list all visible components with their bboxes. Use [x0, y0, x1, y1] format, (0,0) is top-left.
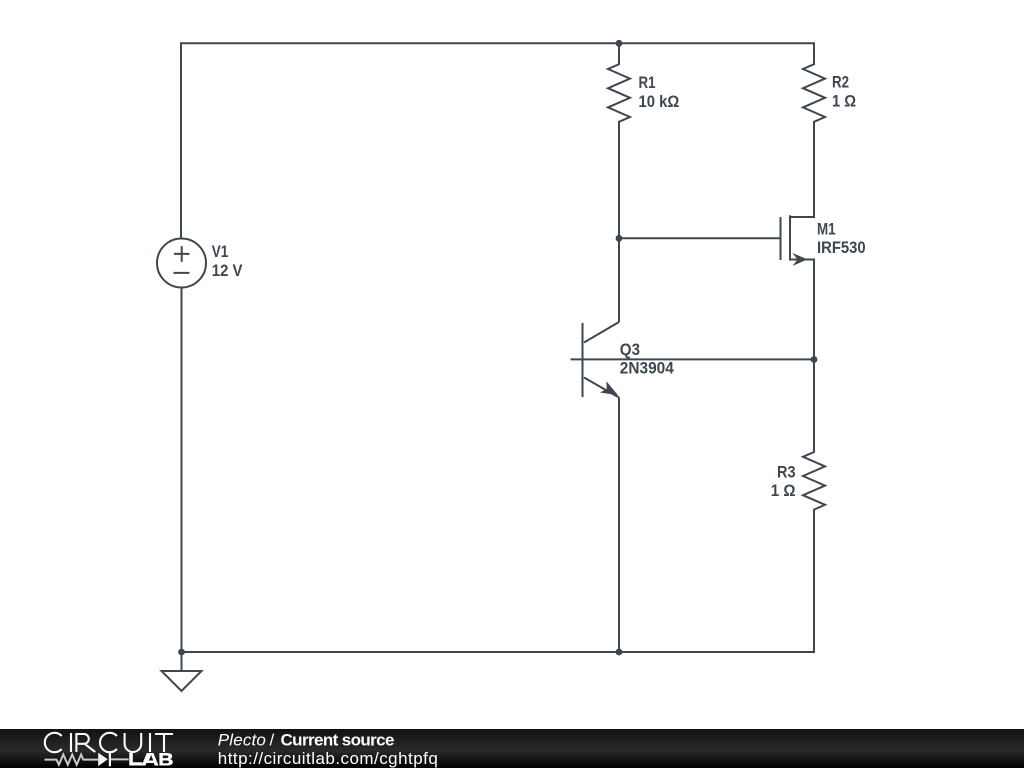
wire top rail	[180, 42, 815, 44]
resistor R3	[803, 360, 825, 653]
wire left rail upper (V1 to top rail)	[180, 43, 182, 238]
wire gate (R1 node to M1 gate)	[619, 237, 780, 239]
svg-text:Current source: Current source	[281, 731, 395, 750]
node bottom rail / Q3 emitter	[616, 649, 623, 656]
wire Q3 base rail	[571, 358, 815, 360]
transistor Q3	[583, 238, 620, 652]
resistor R1	[608, 43, 630, 238]
logo CIRCUIT wordmark	[45, 733, 173, 752]
node top rail / R1	[616, 40, 623, 47]
wire bottom rail	[181, 651, 816, 653]
footer bar	[0, 729, 1024, 768]
resistor R2	[803, 43, 825, 217]
voltage source V1	[157, 239, 206, 288]
logo LAB wordmark	[129, 753, 172, 766]
svg-text:http://circuitlab.com/cghtpfq: http://circuitlab.com/cghtpfq	[218, 749, 438, 768]
mosfet M1	[781, 215, 816, 266]
logo resistor-diode squiggle	[45, 753, 129, 767]
ground	[162, 652, 202, 691]
svg-text:/: /	[270, 731, 275, 750]
node gate / R1-Q3	[616, 235, 623, 242]
node source / base / R3	[811, 356, 818, 363]
node bottom rail / ground	[178, 649, 185, 656]
wire M1 source to node	[813, 260, 815, 360]
svg-text:Plecto: Plecto	[218, 731, 266, 750]
wire left rail lower (V1 to bottom rail)	[181, 288, 183, 653]
